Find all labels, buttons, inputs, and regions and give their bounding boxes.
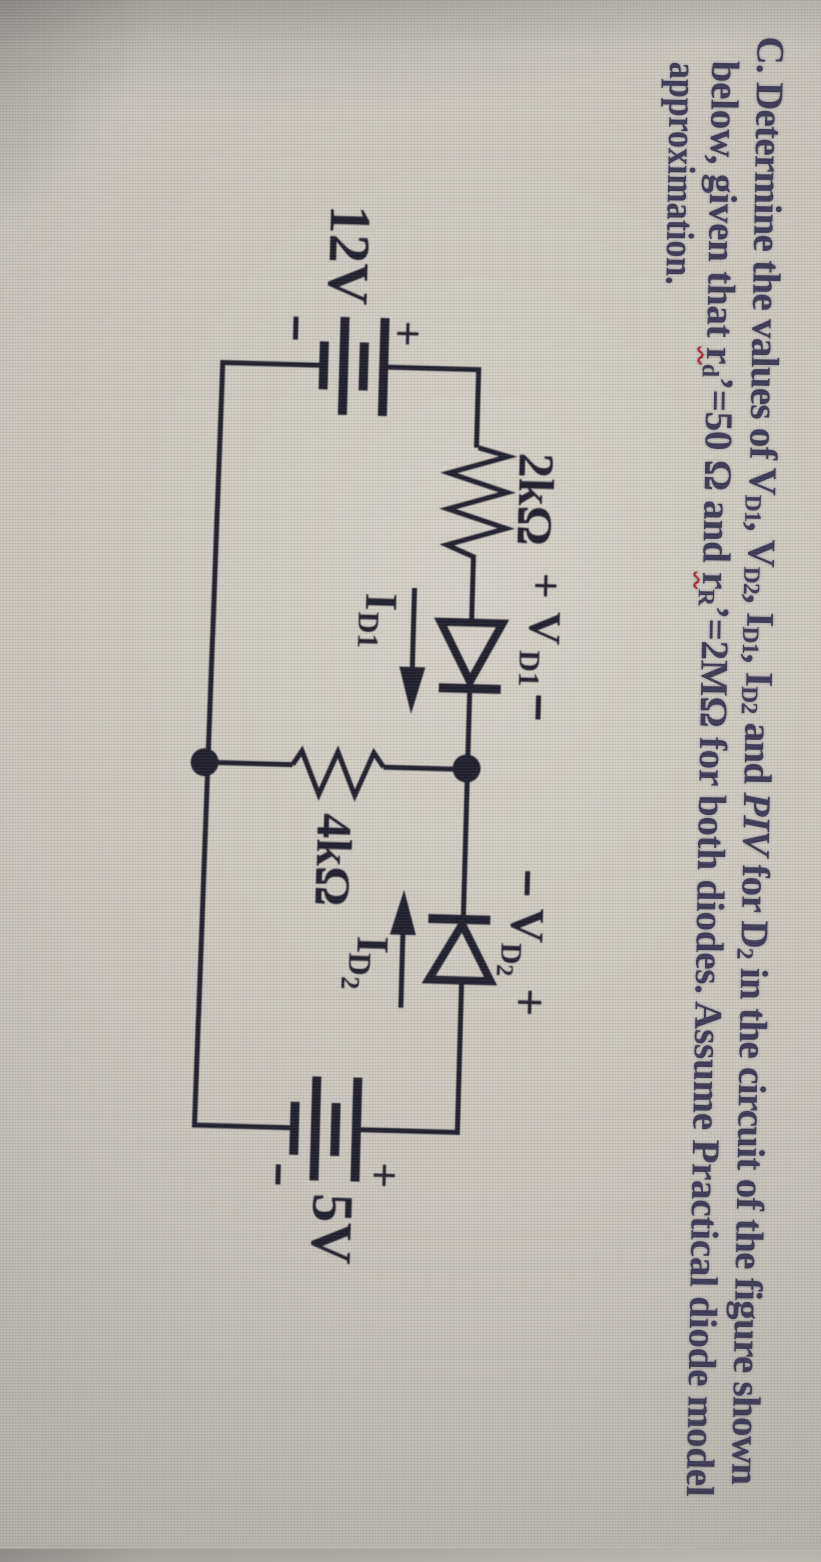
wire battery B1 plus terminal up to top-left corner	[384, 367, 479, 370]
problem statement line 1	[722, 36, 793, 1485]
svg-text:+: +	[502, 987, 559, 1017]
battery B1 12V plates	[322, 316, 385, 416]
wire resistor to diode D1	[472, 558, 474, 623]
wire D1 to node A	[468, 689, 470, 764]
problem statement line 3	[656, 62, 705, 286]
diode D2 cathode bar	[428, 919, 490, 921]
bottom wire	[194, 360, 222, 1128]
svg-text:ID1: ID1	[351, 592, 408, 649]
label - VD2 +	[525, 871, 531, 895]
diode D1 triangle	[439, 622, 503, 683]
current arrow ID2 head	[390, 889, 417, 935]
node B junction dot	[190, 748, 219, 777]
svg-text:12V: 12V	[315, 204, 383, 306]
svg-text:+: +	[382, 320, 434, 348]
current arrow ID2 shaft	[401, 930, 403, 1008]
problem statement line 2	[677, 60, 748, 1497]
wire top-left corner to resistor R1	[476, 367, 478, 447]
wire battery B2 minus terminal down to bottom-right corner	[194, 1125, 294, 1128]
svg-text:4kΩ: 4kΩ	[305, 813, 364, 907]
node A junction dot	[452, 754, 481, 783]
diode D1 cathode bar	[439, 688, 501, 690]
wire R2 to node B	[208, 762, 293, 764]
resistor R1 2kΩ zigzag	[446, 447, 508, 559]
battery B2 minus sign	[275, 1164, 281, 1184]
svg-text:2kΩ: 2kΩ	[507, 452, 566, 546]
wire top-right corner down to battery B2 plus terminal	[356, 1130, 459, 1133]
battery B2 5V plates	[293, 1076, 358, 1182]
wire D2 to top-right corner	[457, 980, 461, 1134]
resistor R2 4kΩ zigzag	[292, 751, 384, 797]
diode D2 triangle	[429, 924, 493, 982]
svg-text:VD2: VD2	[491, 907, 554, 977]
wire node A down to resistor R2	[384, 767, 467, 769]
svg-text:5V: 5V	[299, 1193, 366, 1266]
battery B1 minus sign	[293, 317, 299, 340]
svg-text:+VD1: +VD1	[512, 572, 572, 688]
current arrow ID1 head	[398, 667, 425, 715]
current arrow ID1 shaft	[412, 588, 414, 672]
wire bottom-left corner up to battery B1 minus terminal	[221, 362, 324, 365]
svg-text:+: +	[359, 1162, 411, 1190]
svg-text:ID2: ID2	[335, 935, 398, 991]
wire node A to diode D2	[463, 769, 467, 916]
